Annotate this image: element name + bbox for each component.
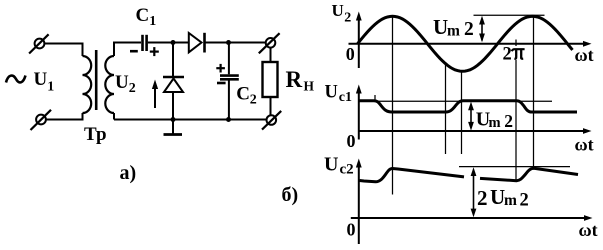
capacitor C2: [220, 76, 239, 80]
thin reference vertical line 2: [445, 64, 447, 155]
G1 sine curve U2: [358, 16, 573, 71]
diode VD2: [189, 33, 205, 53]
wire D1 branch: [172, 43, 174, 77]
thin reference vertical line 3: [461, 70, 463, 154]
wire C2 branch top: [228, 43, 230, 74]
svg-text:U: U: [115, 72, 129, 93]
terminal top-right: [259, 33, 280, 53]
svg-text:Тр: Тр: [84, 124, 107, 145]
transformer primary winding: [83, 56, 92, 113]
svg-text:m: m: [489, 115, 501, 131]
svg-text:c2: c2: [340, 162, 354, 178]
wire primary top: [44, 44, 82, 57]
G2 Um2 double arrow: [468, 102, 474, 131]
svg-text:0: 0: [347, 220, 356, 240]
G2 y-axis: [356, 85, 362, 140]
resistor Rh: [263, 62, 278, 97]
svg-text:2: 2: [464, 19, 474, 40]
G1 x-axis: [349, 41, 592, 47]
label U2 graph1: [332, 1, 352, 26]
G2 x-axis: [358, 128, 592, 134]
G3 waveform Uc2 part2: [480, 168, 578, 180]
svg-text:U: U: [332, 1, 344, 20]
diode VD1: [163, 77, 184, 120]
svg-text:U: U: [324, 153, 338, 175]
ground: [164, 120, 183, 135]
svg-text:1: 1: [149, 14, 156, 29]
wire R branch bottom: [270, 97, 272, 115]
terminal bottom-left: [31, 110, 52, 130]
G2 knee tick: [374, 95, 376, 102]
current arrow: [152, 80, 158, 109]
label 2Um2 graph3: [477, 185, 529, 211]
svg-text:2: 2: [129, 81, 136, 96]
label Um2 graph1: [433, 15, 474, 40]
minus sign C1: [130, 50, 138, 53]
G3 y-axis: [356, 159, 362, 245]
svg-text:ωt: ωt: [575, 135, 594, 155]
svg-text:б): б): [282, 184, 299, 206]
G3 2Um2 double arrow: [471, 167, 477, 217]
plus sign C2: [216, 64, 225, 73]
svg-text:2: 2: [520, 191, 529, 211]
G3 peak level thin line: [459, 166, 570, 168]
G1 y-axis: [356, 12, 362, 69]
svg-text:0: 0: [347, 131, 356, 151]
transformer secondary winding: [105, 56, 114, 113]
bottom rail: [114, 119, 267, 121]
AC source tilde: [6, 76, 26, 83]
label U2 winding: [115, 72, 136, 96]
G3 waveform Uc2: [360, 169, 465, 182]
thin reference vertical line 4: [515, 40, 517, 47]
capacitor C1: [143, 35, 147, 51]
node junction bottom ground: [171, 117, 176, 122]
transformer core: [95, 50, 98, 110]
wire C2 branch bottom: [228, 80, 230, 119]
svg-text:U: U: [433, 15, 448, 39]
svg-text:ωt: ωt: [575, 45, 594, 65]
node junction bottom C2: [226, 117, 231, 122]
svg-text:0: 0: [346, 44, 355, 64]
svg-text:U: U: [325, 83, 338, 103]
wire C1 to diode D2: [148, 42, 189, 44]
thin reference vertical line 5: [533, 16, 535, 169]
terminal top-left: [29, 34, 48, 53]
G1 Um2 double arrow: [479, 16, 485, 42]
label Uc1: [325, 83, 353, 105]
svg-text:2: 2: [344, 11, 351, 26]
G3 x-axis: [351, 215, 593, 221]
svg-text:m: m: [447, 22, 460, 39]
label Um2 graph2: [476, 109, 513, 131]
terminal bottom-right: [262, 111, 281, 130]
label C1: [136, 5, 157, 29]
wire secondary top: [114, 43, 141, 57]
svg-text:c1: c1: [339, 90, 352, 105]
svg-text:U: U: [490, 185, 505, 209]
svg-text:ωt: ωt: [579, 220, 598, 240]
label C2: [236, 83, 256, 107]
G2 high level thin line: [376, 100, 552, 102]
plus sign C1: [150, 47, 159, 56]
node junction top C2: [226, 40, 231, 45]
svg-text:2: 2: [477, 186, 488, 210]
minus sign C2: [217, 82, 226, 85]
svg-text:2: 2: [504, 111, 513, 131]
wire secondary bottom: [113, 113, 115, 120]
svg-text:m: m: [504, 192, 517, 209]
label Uc2: [324, 153, 354, 177]
wire D2 to terminal: [206, 42, 266, 44]
svg-text:1: 1: [47, 80, 54, 95]
svg-text:2: 2: [250, 92, 257, 107]
svg-text:2: 2: [503, 45, 512, 65]
svg-text:C: C: [136, 5, 150, 26]
thin reference vertical line 1: [392, 16, 394, 195]
svg-text:а): а): [120, 162, 137, 184]
G2 waveform Uc1: [359, 101, 577, 112]
svg-text:U: U: [34, 69, 48, 90]
svg-text:Н: Н: [304, 79, 315, 94]
wire primary bottom: [46, 113, 83, 120]
label U1: [34, 69, 55, 95]
node junction top D1: [171, 40, 176, 45]
G1 peak level thin line: [474, 14, 545, 16]
label Rn: [286, 67, 315, 94]
svg-text:C: C: [236, 83, 250, 104]
wire R branch top: [270, 48, 272, 62]
svg-text:R: R: [286, 67, 303, 92]
